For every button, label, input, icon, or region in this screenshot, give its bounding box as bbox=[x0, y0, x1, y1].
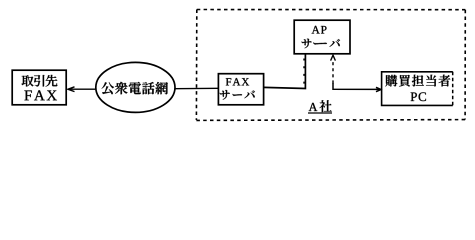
wire 公衆電話網 to FAXサーバ bbox=[175, 87, 219, 89]
ellipse 公衆電話網 bbox=[96, 62, 175, 112]
wire corner junction to PC (solid) bbox=[333, 83, 380, 89]
arrow dashed up into APサーバ bbox=[331, 55, 336, 83]
label 購買担当者 bbox=[385, 75, 450, 87]
box APサーバ bbox=[294, 20, 350, 54]
label FAX (取引先FAX box) bbox=[24, 90, 57, 100]
label PC bbox=[411, 92, 426, 101]
arrow head into 購買担当者PC bbox=[376, 87, 381, 91]
label A社 bbox=[309, 103, 318, 111]
label サーバ (APサーバ box) bbox=[302, 39, 340, 49]
wire FAXサーバ to APサーバ (solid L) bbox=[264, 54, 306, 89]
arrow 公衆電話網 to 取引先FAX bbox=[68, 87, 96, 92]
box 購買担当者PC right edge (faded dashed) bbox=[452, 72, 454, 106]
label サーバ (FAXサーバ box) bbox=[220, 90, 255, 100]
label AP bbox=[312, 26, 327, 34]
label A社 underline bbox=[308, 112, 332, 114]
box 購買担当者PC bbox=[382, 72, 453, 106]
A社 boundary dashed box bbox=[196, 10, 465, 121]
box 取引先FAX bbox=[12, 70, 66, 105]
label 取引先 bbox=[22, 75, 58, 87]
box FAXサーバ bbox=[218, 74, 263, 105]
label FAX (FAXサーバ box) bbox=[226, 78, 249, 85]
wire dashed remnant left of vertical bbox=[303, 59, 305, 88]
label 公衆電話網 bbox=[102, 82, 168, 94]
